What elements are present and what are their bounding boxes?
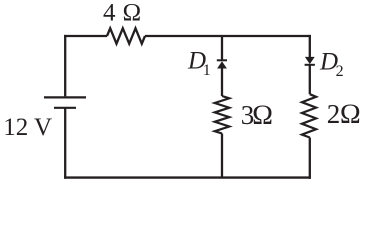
label D1	[187, 47, 211, 79]
wire top side	[64, 35, 311, 37]
svg-text:12 V: 12 V	[3, 114, 52, 141]
svg-text:2: 2	[327, 99, 341, 129]
resistor R3 2-ohm (vertical zigzag)	[302, 94, 316, 137]
wire left side below battery	[64, 108, 66, 179]
wire left side above battery	[64, 35, 66, 97]
wire middle branch lower (R2 to bottom)	[221, 134, 223, 178]
battery B1 12V	[44, 97, 86, 107]
label 3 Ohm	[241, 100, 274, 131]
wire middle branch (D1 to R2)	[221, 69, 223, 97]
svg-text:Ω: Ω	[340, 99, 362, 130]
label 2 Ohm	[327, 99, 361, 130]
wire right side upper (node to D2)	[309, 35, 311, 57]
wire right side lower (R3 to bottom)	[309, 138, 311, 179]
label 4 Ohm	[103, 0, 142, 26]
resistor R2 3-ohm (vertical zigzag)	[215, 96, 230, 134]
diode D1 (cathode bar on top, conducts upward)	[217, 60, 227, 68]
svg-text:1: 1	[203, 62, 211, 79]
svg-text:4: 4	[103, 0, 116, 26]
label D2	[319, 48, 344, 80]
diode D2 (anode triangle on top pointing down, cathode bar below)	[305, 57, 315, 65]
wire middle branch upper (node to D1)	[221, 36, 223, 60]
svg-text:Ω: Ω	[122, 0, 141, 26]
wire bottom side	[64, 176, 311, 178]
wire right side (D2 to R3)	[309, 65, 311, 94]
svg-text:2: 2	[336, 63, 344, 80]
label 12 V	[3, 114, 52, 141]
resistor R1 4-ohm (horizontal zigzag)	[107, 28, 145, 43]
svg-text:Ω: Ω	[252, 100, 274, 131]
